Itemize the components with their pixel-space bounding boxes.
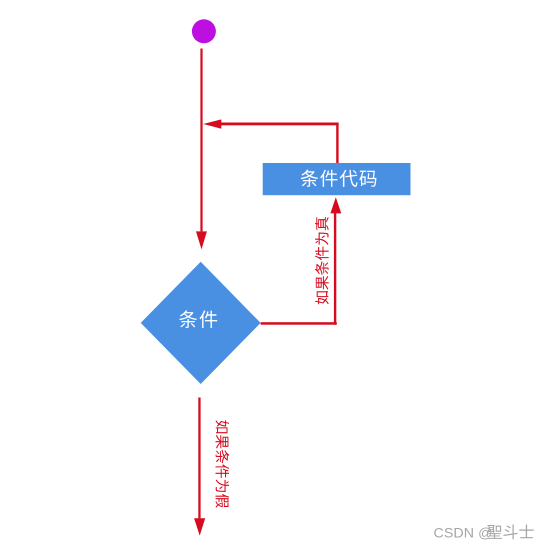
svg-text:CSDN @: CSDN @ — [434, 526, 493, 542]
